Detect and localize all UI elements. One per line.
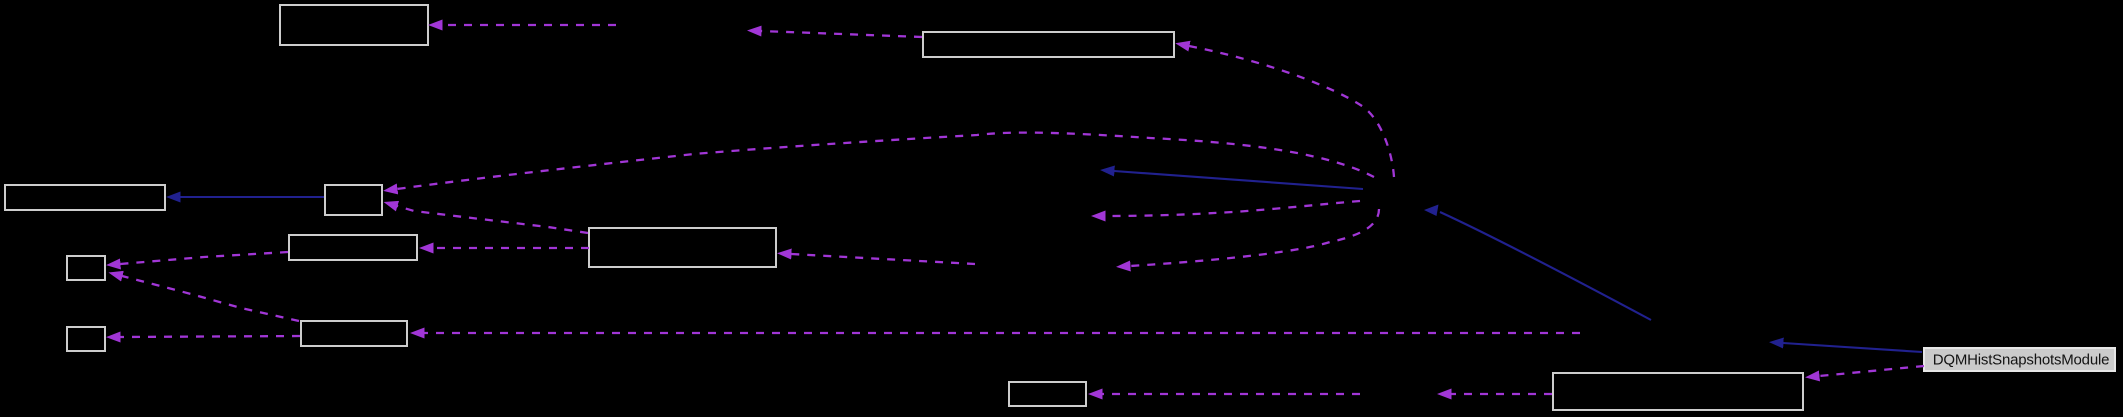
edge E20 dashed box6 to box4	[397, 206, 588, 233]
node box6	[589, 228, 776, 267]
edge E2 dashed from box2 left	[761, 31, 922, 37]
edge E9 blue from box12	[1783, 343, 1922, 352]
edge E10 long dashed into box9	[424, 332, 1580, 334]
edge E11 dashed box12 to box11	[1819, 366, 1924, 376]
edge E7 dashed curve hub	[1130, 209, 1379, 266]
edge E6 dashed curve hub	[1105, 201, 1360, 216]
node box2 (top middle)	[923, 32, 1174, 57]
edge E12 dashed from box11 left	[1451, 393, 1552, 395]
node box10	[1009, 382, 1086, 406]
edge E3 dashed curve hub to box2 right	[1189, 46, 1394, 177]
node box11	[1553, 373, 1803, 410]
edge E14 dashed into box6 right	[791, 254, 975, 264]
node box4	[325, 185, 382, 215]
node box5	[289, 235, 417, 260]
edge E5 blue hub to left	[1114, 171, 1363, 189]
edge E4 dashed long curve hub to box4	[397, 133, 1374, 189]
node box7	[67, 256, 105, 280]
edge E13 dashed into box10	[1102, 393, 1360, 395]
node box9	[301, 321, 407, 346]
node box3 (left)	[5, 185, 165, 210]
edge E18 dashed box9 to box8	[120, 336, 300, 337]
node box1 (top left)	[280, 5, 428, 45]
edge E19 dashed box9 to box7	[122, 276, 299, 321]
edge E17 dashed box5 to box7	[120, 252, 288, 264]
edge E8 blue diagonal to hub	[1440, 212, 1651, 320]
edge E1 dashed into box1	[442, 24, 616, 26]
edge E16 dashed box6 to box5	[433, 247, 589, 249]
node box8	[67, 327, 105, 351]
svg-text:DQMHistSnapshotsModule: DQMHistSnapshotsModule	[1933, 352, 2110, 369]
node box12 DQMHistSnapshotsModule	[1924, 348, 2115, 371]
edge E15 blue box4 to box3	[180, 196, 324, 198]
